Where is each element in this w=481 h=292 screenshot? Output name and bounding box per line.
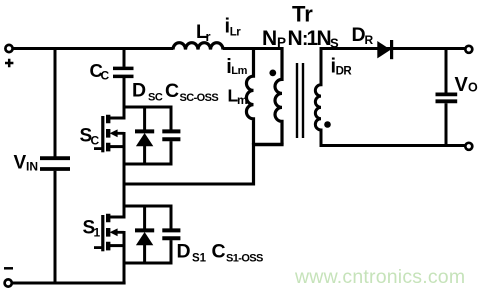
S1 cell bottom rail: [123, 262, 173, 265]
svg-text:R: R: [365, 33, 374, 47]
svg-text:Tr: Tr: [292, 2, 313, 27]
bottom wire: [13, 282, 126, 285]
svg-text:V: V: [14, 153, 27, 174]
svg-text:IN: IN: [26, 160, 38, 174]
polarity dot primary: [269, 70, 276, 77]
winding Ns + secondary loop wires: [315, 49, 464, 146]
capacitor CSC-OSS: [162, 106, 180, 166]
top wire right: [223, 47, 283, 50]
svg-text:DR: DR: [336, 65, 353, 77]
inductor Lr: [173, 43, 223, 50]
svg-text:1: 1: [94, 226, 101, 240]
plus sign: [5, 59, 13, 67]
svg-text:SC-OSS: SC-OSS: [180, 92, 219, 104]
minus sign: [4, 267, 13, 270]
junction wire to transformer: [123, 183, 256, 186]
mosfet S1 arrow head: [110, 228, 118, 236]
svg-text:V: V: [455, 74, 469, 96]
wire junction to S1 drain: [123, 184, 126, 219]
svg-text:m: m: [237, 93, 248, 107]
svg-text:D: D: [352, 24, 366, 46]
polarity dot secondary: [324, 121, 331, 128]
SC cell top rail: [123, 106, 173, 109]
svg-text:D: D: [132, 80, 146, 102]
inductor Lm (magnetizing): [246, 47, 253, 145]
wire S1 source to bottom wire: [123, 231, 126, 285]
output terminal top: [465, 46, 472, 53]
wire VIN branch top: [54, 47, 57, 157]
SC cell bottom rail: [123, 163, 173, 166]
capacitor VIN: [40, 158, 70, 169]
svg-text:Lm: Lm: [231, 65, 247, 77]
wire SC source down to junction: [123, 132, 126, 186]
svg-text:Lr: Lr: [230, 27, 242, 39]
svg-text:C: C: [101, 69, 110, 83]
svg-text:C: C: [165, 80, 179, 102]
diode DS1: [135, 205, 154, 265]
input terminal +: [5, 45, 12, 52]
diode DR: [377, 41, 390, 58]
diode DSC: [135, 106, 154, 166]
svg-text:S1-OSS: S1-OSS: [226, 252, 263, 264]
svg-text:SC: SC: [148, 91, 163, 103]
capacitor VO: [436, 50, 458, 146]
svg-text:C: C: [212, 241, 226, 263]
svg-text:D: D: [177, 241, 191, 263]
svg-text:N: N: [288, 27, 303, 50]
mosfet SC: [94, 115, 124, 153]
svg-text:N: N: [262, 27, 277, 50]
svg-text:C: C: [91, 134, 100, 148]
top wire: [13, 47, 173, 50]
capacitor CC: [113, 68, 134, 76]
svg-text:O: O: [468, 81, 478, 95]
svg-text:r: r: [206, 29, 211, 44]
wire VIN branch bottom: [54, 171, 57, 283]
svg-text:S1: S1: [192, 252, 207, 264]
wire Cc to SC drain: [123, 78, 126, 120]
mosfet SC arrow head: [110, 129, 118, 137]
S1 cell top rail: [123, 205, 173, 208]
winding Np: [275, 47, 282, 145]
wire primary return: [252, 143, 255, 186]
primary bottom bar: [252, 143, 284, 146]
svg-text:www.cntronics.com: www.cntronics.com: [294, 266, 465, 288]
capacitor CS1-OSS: [162, 205, 180, 265]
transformer core: [297, 63, 303, 138]
wire Cc branch: [123, 47, 126, 67]
output terminal bottom: [465, 143, 472, 150]
mosfet S1: [94, 214, 124, 252]
input terminal -: [5, 279, 12, 286]
